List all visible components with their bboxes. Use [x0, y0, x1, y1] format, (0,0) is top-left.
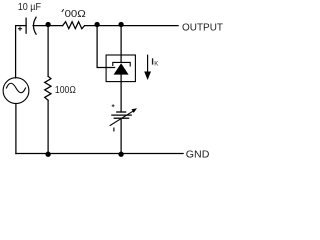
wire bottom rail	[16, 153, 183, 155]
junction top A	[45, 22, 50, 27]
zener D1 triangle	[114, 63, 129, 74]
junction top B	[94, 22, 99, 27]
label R1 value 100ohm	[62, 9, 64, 12]
battery plus mark	[112, 104, 115, 107]
wire top rail middle segment	[33, 25, 63, 27]
capacitor C1 curved plate	[33, 17, 36, 34]
Ik arrowhead	[144, 72, 151, 81]
wire left rail upper	[15, 26, 17, 78]
wire battery lower	[120, 118, 122, 153]
svg-text:10 µF: 10 µF	[18, 2, 41, 13]
battery minus mark	[113, 128, 114, 132]
svg-text:GND: GND	[186, 148, 210, 160]
resistor R2 zigzag vertical	[45, 76, 51, 100]
capacitor plus mark	[18, 27, 22, 31]
wire top rail right segment	[85, 25, 179, 27]
Ik arrow line	[147, 55, 149, 73]
wire left rail lower	[15, 104, 17, 154]
svg-text:00Ω: 00Ω	[65, 8, 86, 20]
capacitor C1 plus plate	[25, 18, 27, 33]
label Ik	[152, 58, 153, 64]
battery plate long	[112, 114, 131, 116]
wire top rail left segment	[16, 25, 27, 27]
battery plate short top	[117, 111, 126, 113]
adjust arrowhead	[132, 108, 138, 113]
wire shunt branch upper	[47, 26, 49, 77]
junction bottom E	[118, 152, 123, 157]
resistor R1 zigzag	[63, 22, 85, 29]
wire anode drop	[120, 75, 122, 112]
svg-text:K: K	[154, 61, 158, 67]
junction top C	[118, 22, 123, 27]
svg-text:100Ω: 100Ω	[55, 84, 76, 96]
wire ref branch vertical	[97, 26, 115, 68]
AC source sine wave	[6, 83, 25, 93]
svg-text:OUTPUT: OUTPUT	[182, 21, 224, 33]
junction bottom D	[45, 152, 50, 157]
AC source V1 circle	[3, 78, 29, 104]
battery plate bottom	[114, 117, 128, 119]
wire cathode drop	[120, 26, 122, 63]
regulator U1 box	[106, 55, 135, 82]
wire shunt branch lower	[47, 100, 49, 153]
adjust arrow diagonal	[110, 111, 133, 125]
zener D1 cathode bar	[113, 62, 130, 66]
